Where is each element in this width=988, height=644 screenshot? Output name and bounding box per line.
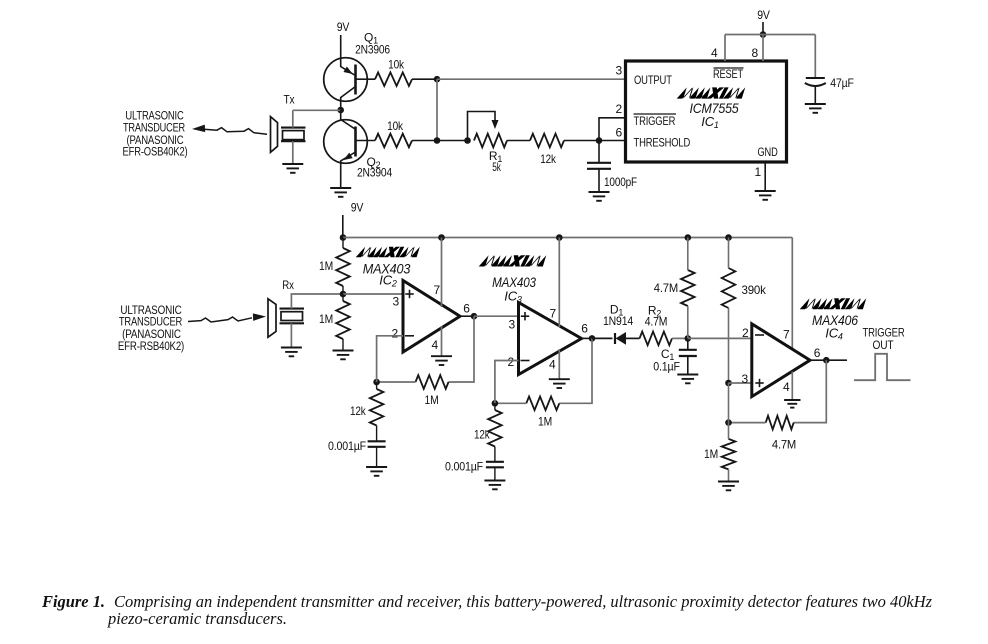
wire 12k to cap (IC2) (376, 426, 378, 442)
svg-text:3: 3 (616, 64, 623, 78)
node junction (base drive top) (434, 76, 441, 83)
wire 9V rail (343, 237, 792, 239)
svg-text:3: 3 (393, 295, 400, 309)
svg-text:3: 3 (742, 372, 749, 386)
svg-text:12k: 12k (474, 428, 490, 442)
svg-text:2: 2 (616, 102, 623, 116)
ground (IC1 GND pin) (755, 191, 776, 200)
svg-text:10k: 10k (388, 58, 405, 72)
node junction (IC4 fb) (725, 419, 732, 426)
svg-text:Tx: Tx (284, 93, 295, 107)
svg-text:4: 4 (432, 338, 439, 352)
wire 47uF to ground (814, 85, 816, 104)
svg-text:9V: 9V (757, 8, 770, 22)
resistor 390k (722, 268, 736, 308)
svg-text:1M: 1M (538, 415, 552, 429)
potentiometer R1 5k element (474, 134, 507, 148)
svg-text:1M: 1M (319, 259, 333, 273)
wire cap to ground (598, 169, 600, 191)
op-amp IC3 MAX403 triangle (519, 303, 582, 375)
resistor 12k (IC3) (488, 410, 502, 447)
resistor 4.7M (IC4 feedback) (766, 416, 794, 430)
op-amp IC2 MAX403 triangle (403, 281, 460, 353)
resistor 10k (Q1 base) (375, 72, 412, 86)
wire divider node to fb node (728, 383, 730, 423)
capacitor 0.001uF (IC2) (368, 441, 386, 447)
svg-text:4: 4 (549, 358, 556, 372)
ground (C1) (677, 375, 698, 384)
node junction (rail left) (340, 234, 347, 241)
wire IC4 feedback left leg (729, 422, 766, 424)
svg-text:6: 6 (814, 346, 821, 360)
transistor Q2 emitter lead (341, 152, 356, 187)
svg-text:2: 2 (508, 355, 515, 369)
potentiometer R1 wiper bracket (468, 112, 496, 141)
logo MAXIM (IC3) (479, 255, 547, 266)
wire IC2 pin 7 (441, 238, 443, 308)
wire IC4 output (810, 359, 847, 361)
wire node vertical tie (436, 79, 438, 140)
transistor Q1 collector lead (341, 87, 356, 111)
svg-text:0.001µF: 0.001µF (445, 460, 483, 474)
wire peak node to IC4 minus (688, 337, 752, 339)
wire Rx node to IC2 + (343, 293, 403, 295)
svg-text:7: 7 (434, 283, 441, 297)
svg-text:4.7M: 4.7M (654, 281, 678, 295)
svg-text:2: 2 (742, 326, 749, 340)
node junction (rail at IC2 pin7) (438, 234, 445, 241)
node junction (9V top) (760, 31, 767, 38)
svg-text:0.1µF: 0.1µF (653, 360, 680, 374)
capacitor 1000pF (587, 163, 611, 169)
wire node to C1 (687, 338, 689, 349)
wire 1M lower to ground (342, 339, 344, 350)
wire supply rail top (725, 34, 815, 36)
wire cap to ground (IC2) (376, 447, 378, 467)
transistor Q2 collector lead (341, 110, 355, 129)
capacitor 47uF (805, 78, 826, 86)
op-amp IC3 plus (521, 312, 529, 320)
svg-text:Rx: Rx (282, 278, 294, 292)
svg-text:ULTRASONIC: ULTRASONIC (125, 111, 183, 123)
svg-text:6: 6 (616, 126, 623, 140)
logo MAXIM (IC1) (677, 87, 746, 98)
wire 12k to cap (IC3) (494, 447, 496, 462)
svg-text:1: 1 (755, 165, 762, 179)
svg-text:6: 6 (463, 302, 470, 316)
svg-text:ULTRASONIC: ULTRASONIC (120, 305, 181, 317)
svg-text:8: 8 (752, 46, 759, 60)
node junction (Rx input) (340, 291, 347, 298)
node junction (threshold) (596, 137, 603, 144)
svg-text:ICM7555: ICM7555 (689, 100, 738, 116)
svg-text:1M: 1M (319, 312, 333, 326)
transistor Q2 base bar (354, 127, 357, 157)
node junction (IC3 out) (589, 335, 596, 342)
wire rail to IC4 pin7 (791, 238, 793, 350)
wire IC3 feedback left leg (495, 402, 526, 404)
ground (divider) (718, 482, 739, 491)
svg-text:4: 4 (711, 46, 718, 60)
svg-text:GND: GND (758, 145, 779, 159)
svg-text:(PANASONIC: (PANASONIC (127, 135, 184, 147)
wire IC3 inverting input (495, 361, 519, 404)
svg-text:OUT: OUT (873, 338, 895, 352)
svg-text:6: 6 (581, 322, 588, 336)
wire R1 to 12k (507, 140, 530, 142)
capacitor 0.001uF (IC3) (486, 462, 504, 468)
svg-text:1M: 1M (425, 393, 439, 407)
wire Q2 base to resistor (356, 140, 376, 142)
wire IC2 out to IC3 + (474, 315, 519, 317)
node junction (R1 left) (464, 137, 471, 144)
wire IC3 pin 7 (558, 238, 560, 328)
wire 47uF drop (814, 35, 816, 78)
resistor 4.7M (pullup) (681, 270, 695, 306)
ground (Rx) (281, 348, 302, 357)
node junction (IC2 out) (471, 313, 478, 320)
wire 390k to divider node (728, 308, 730, 383)
wire trigger link (599, 118, 626, 141)
node junction (IC4 out) (823, 357, 830, 364)
op-amp IC4 minus (755, 334, 764, 336)
svg-text:2N3906: 2N3906 (355, 43, 390, 57)
svg-text:9V: 9V (337, 20, 350, 34)
logo MAXIM (IC4) (800, 298, 867, 309)
svg-text:TRIGGER: TRIGGER (634, 114, 676, 128)
svg-text:(PANASONIC: (PANASONIC (122, 329, 181, 341)
wire IC2 output (460, 315, 474, 317)
transducer Rx horn (268, 299, 276, 337)
ground (47uF) (805, 104, 826, 113)
wire IC3 output (582, 337, 593, 339)
resistor 12k (IC2) (370, 389, 384, 426)
ground (IC3 RC) (484, 481, 505, 490)
node junction (peak detect) (685, 335, 692, 342)
wire cap to ground (IC3) (494, 467, 496, 480)
resistor 1M (divider lower) (722, 439, 736, 470)
svg-text:12k: 12k (540, 152, 556, 166)
wire resistor to tie node (412, 140, 468, 142)
node junction (IC2 fb) (373, 379, 380, 386)
wire Rx crystal up (291, 294, 343, 309)
wire IC3 feedback right leg (559, 338, 592, 403)
wire pin 8 drop (762, 35, 764, 62)
wire R2 to node (672, 337, 688, 339)
svg-text:EFR-OSB40K2): EFR-OSB40K2) (123, 147, 188, 159)
svg-text:1M: 1M (704, 447, 718, 461)
resistor 1M (IC2 feedback) (416, 375, 449, 389)
svg-text:TRANSDUCER: TRANSDUCER (123, 123, 185, 135)
wire IC2 inverting input (377, 336, 403, 382)
transducer Rx crystal (280, 308, 305, 310)
node junction (IC3 fb) (492, 400, 499, 407)
wire Tx crystal down (292, 141, 294, 163)
wire Tx node to transducer (293, 109, 341, 111)
svg-text:0.001µF: 0.001µF (328, 439, 366, 453)
svg-text:3: 3 (509, 318, 516, 332)
wire pin 1 to ground (764, 162, 766, 191)
wire Q1 base to resistor (356, 78, 376, 80)
wire Tx crystal up (292, 110, 294, 127)
svg-text:7: 7 (783, 328, 790, 342)
op-amp IC4 MAX406 triangle (752, 324, 810, 397)
wire divider to IC4 plus (729, 382, 752, 384)
svg-text:47µF: 47µF (830, 76, 853, 90)
wire IC2 pin 4 (441, 326, 443, 356)
wire 9V drop (762, 22, 764, 35)
wire 9V to rail (342, 215, 344, 238)
wire diode to R2 (626, 337, 640, 339)
op-amp IC2 plus (405, 290, 413, 298)
node junction (rail at IC3 pin7) (556, 234, 563, 241)
resistor 12k (timing) (530, 134, 564, 148)
wire IC4 pin 4 (791, 372, 793, 400)
svg-text:2N3904: 2N3904 (357, 166, 392, 180)
ground (IC2 RC) (366, 467, 387, 476)
op-amp IC2 minus (405, 335, 414, 337)
svg-text:1N914: 1N914 (603, 314, 633, 328)
wire 9V to Q1 emitter (340, 35, 342, 58)
op-amp/timer IC1 ICM7555 package (626, 61, 787, 162)
resistor 1M (Rx bias upper) (336, 248, 350, 286)
logo MAXIM (IC2) (356, 247, 420, 258)
svg-text:EFR-RSB40K2): EFR-RSB40K2) (118, 341, 185, 353)
ground (Tx) (282, 164, 303, 173)
wire IC4 feedback right leg (794, 360, 827, 422)
svg-text:7: 7 (550, 307, 557, 321)
svg-text:TRANSDUCER: TRANSDUCER (119, 317, 182, 329)
wire pin 4 drop (724, 35, 726, 62)
wire IC3 pin 4 (558, 349, 560, 379)
wire resistor to node (412, 78, 437, 80)
svg-text:2: 2 (392, 327, 399, 341)
svg-text:9V: 9V (351, 201, 364, 215)
svg-text:10k: 10k (387, 119, 404, 133)
svg-text:OUTPUT: OUTPUT (634, 73, 672, 87)
node junction (rail at 4.7M) (685, 234, 692, 241)
annotation wave arrow (Tx) (204, 128, 267, 135)
transistor Q1 emitter lead (341, 58, 355, 75)
wire Rx crystal down (290, 323, 292, 347)
ground (1000pF) (589, 192, 610, 201)
transistor Q1 2N3906 body (324, 58, 368, 102)
svg-text:5k: 5k (492, 160, 501, 174)
resistor 1M (Rx bias lower) (336, 301, 350, 339)
wire output bus (437, 78, 626, 80)
transistor Q2 2N3904 body (324, 120, 368, 164)
wire IC2 feedback left leg (377, 381, 416, 383)
resistor 10k (Q2 base) (375, 134, 412, 148)
node junction (rail at 390k) (725, 234, 732, 241)
annotation wave arrow (Rx) (188, 317, 252, 322)
op-amp IC3 minus (521, 360, 530, 362)
wire IC2 feedback right leg (449, 316, 475, 382)
ground (Q2 emitter) (330, 188, 351, 197)
resistor R2 4.7M (640, 332, 673, 346)
wire IC3 out to diode (592, 337, 613, 339)
svg-text:1000pF: 1000pF (604, 175, 637, 189)
transducer Tx horn (271, 117, 278, 153)
svg-text:390k: 390k (742, 283, 767, 297)
resistor 1M (IC3 feedback) (526, 397, 559, 411)
node junction (lower tie) (434, 137, 441, 144)
ground (IC2 pin4) (431, 356, 452, 365)
svg-text:THRESHOLD: THRESHOLD (634, 136, 691, 150)
svg-text:4.7M: 4.7M (645, 315, 668, 329)
diode D1 1N914 (614, 333, 616, 344)
node junction (divider) (725, 380, 732, 387)
node Tx junction (337, 107, 344, 114)
svg-text:4: 4 (783, 380, 790, 394)
capacitor C1 0.1uF (679, 349, 697, 351)
wire 1M to ground (728, 469, 730, 481)
wire threshold node to cap (598, 141, 600, 163)
ground (Rx bias) (333, 351, 354, 360)
ground (IC3 pin4) (549, 379, 570, 388)
waveform trigger pulse (854, 354, 911, 380)
op-amp IC4 plus (755, 379, 763, 387)
svg-text:12k: 12k (350, 404, 366, 418)
svg-text:RESET: RESET (713, 67, 744, 81)
svg-text:4.7M: 4.7M (772, 438, 796, 452)
wire 12k to threshold node (564, 140, 626, 142)
ground (IC4 pin4) (784, 400, 800, 408)
transducer Tx crystal (281, 127, 306, 129)
transistor Q1 base bar (354, 65, 357, 95)
wire C1 to ground (687, 356, 689, 374)
